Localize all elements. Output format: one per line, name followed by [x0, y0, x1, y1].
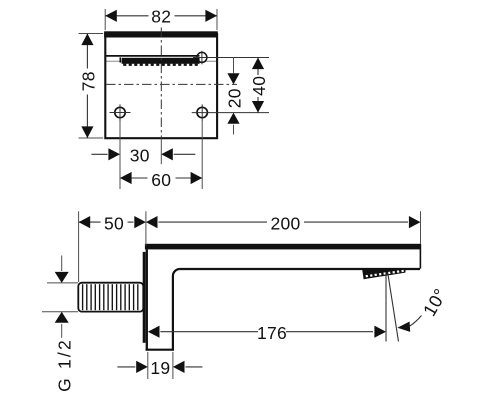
svg-text:40: 40 — [249, 76, 269, 96]
svg-text:30: 30 — [130, 146, 150, 166]
svg-text:G 1/2: G 1/2 — [55, 338, 75, 392]
svg-text:60: 60 — [151, 170, 171, 190]
svg-text:82: 82 — [151, 7, 171, 27]
svg-text:20: 20 — [225, 88, 245, 108]
svg-text:78: 78 — [79, 71, 99, 91]
svg-text:200: 200 — [270, 213, 300, 233]
svg-text:50: 50 — [104, 213, 124, 233]
svg-text:19: 19 — [150, 358, 170, 378]
svg-text:176: 176 — [257, 323, 287, 343]
